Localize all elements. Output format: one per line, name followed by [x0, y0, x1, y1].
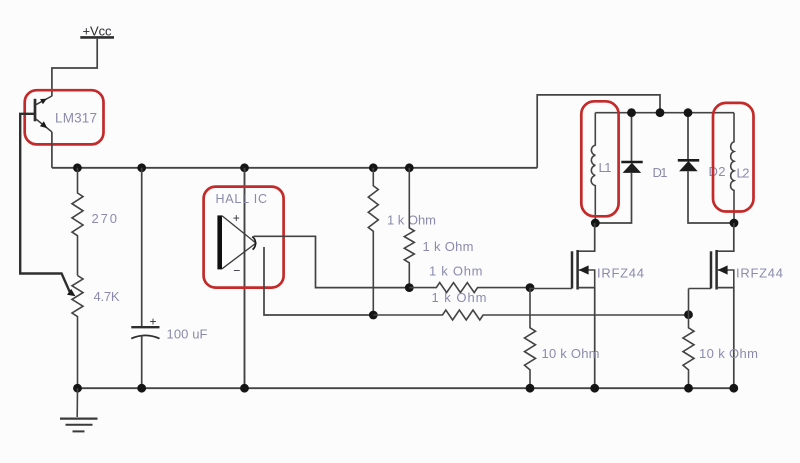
node dot bottom bus / hall supply	[240, 384, 249, 393]
op-amp U2 HALL IC	[217, 211, 256, 278]
label IRFZ44 (Q1)	[597, 266, 644, 281]
svg-text:IRFZ44: IRFZ44	[736, 266, 783, 281]
wire emitter of U1 down to top bus	[51, 132, 53, 168]
red highlight circle around L1	[581, 101, 618, 216]
svg-text:HALL IC: HALL IC	[216, 192, 268, 206]
node dot bottom bus / ground	[73, 384, 82, 393]
label IRFZ44 (Q2)	[736, 266, 783, 281]
node dot rail / feed	[656, 108, 665, 117]
label 1 k Ohm (R4)	[423, 239, 474, 254]
inductor L2	[731, 113, 734, 223]
label L1	[599, 160, 612, 175]
node dot L2 / D2 / drain2	[730, 219, 739, 228]
svg-text:IRFZ44: IRFZ44	[597, 266, 644, 281]
wire base of U1 to wiper (thick left wire)	[20, 114, 70, 293]
node dot feedback / R3 bottom	[369, 311, 378, 320]
red highlight circle around HALL IC	[204, 187, 284, 288]
potentiometer R2 4.7K	[72, 276, 83, 389]
svg-text:D2: D2	[709, 164, 726, 179]
resistor R4 1k (vertical right)	[404, 168, 414, 288]
label D1	[653, 165, 668, 180]
node dot bottom bus / source1	[590, 384, 599, 393]
inductor L1	[591, 113, 595, 223]
ground	[60, 388, 98, 431]
svg-text:L1: L1	[599, 160, 612, 175]
resistor R6 1k (horizontal lower)	[373, 310, 688, 320]
node dot top bus / R1kA	[369, 163, 378, 172]
label 1 k Ohm (R3)	[387, 213, 436, 228]
red highlight circle around L2	[713, 103, 754, 212]
wire top bus	[52, 167, 537, 169]
node dot top bus / hall supply	[240, 163, 249, 172]
svg-text:+: +	[233, 211, 240, 225]
svg-text:1 k Ohm: 1 k Ohm	[423, 239, 474, 254]
transistor U1 LM317 (pass element)	[35, 96, 52, 132]
node dot bottom bus / R8	[684, 384, 693, 393]
node dot R6 / gate2 riser	[684, 310, 693, 319]
diode D1	[595, 113, 642, 223]
node dot bottom bus / C1	[137, 384, 146, 393]
resistor R5 1k (horizontal upper)	[409, 283, 530, 293]
node dot rail / D1	[627, 108, 636, 117]
diode D2	[678, 113, 734, 223]
svg-text:100 uF: 100 uF	[167, 327, 208, 342]
wire hall supply vertical	[244, 168, 246, 388]
node dot top bus / R1kB	[405, 163, 414, 172]
node dot L1 / D1 / drain1	[591, 219, 600, 228]
red highlight circle around LM317	[25, 90, 104, 144]
svg-text:LM317: LM317	[55, 111, 97, 126]
svg-text:10 k Ohm: 10 k Ohm	[699, 346, 758, 361]
node dot top bus / R 270	[73, 163, 82, 172]
svg-text:1 k Ohm: 1 k Ohm	[432, 290, 487, 305]
wire flyback top rail	[595, 112, 734, 114]
label 10 k Ohm (R8)	[699, 346, 758, 361]
wire op-amp feedback drop	[264, 247, 373, 315]
wire bottom bus	[78, 387, 734, 389]
label 4.7K	[94, 289, 120, 304]
resistor R1 270	[72, 168, 83, 276]
transistor Q1 IRFZ44 (left MOSFET)	[530, 223, 595, 388]
power symbol +Vcc	[80, 24, 114, 39]
node dot bottom bus / R7	[526, 384, 535, 393]
label HALL IC	[216, 192, 268, 206]
wire Vcc stem to collector	[52, 39, 97, 96]
resistor R3 1k (vertical left)	[368, 168, 378, 315]
label D2	[709, 164, 726, 179]
svg-text:1 k Ohm: 1 k Ohm	[429, 264, 483, 279]
wiper arrow into 4.7K pot	[67, 289, 76, 296]
svg-text:270: 270	[92, 211, 118, 226]
node dot rail / D2	[684, 108, 693, 117]
node dot R4 / output line	[405, 283, 414, 292]
wire op-amp output to gate network	[254, 236, 410, 287]
svg-text:D1: D1	[653, 165, 668, 180]
node dot top bus / C1	[137, 163, 146, 172]
svg-text:+: +	[150, 315, 157, 329]
wire top bus riser to flyback rail	[537, 95, 660, 168]
label 100 uF	[167, 327, 208, 342]
label 1 k Ohm (R6)	[432, 290, 487, 305]
capacitor C1 100uF	[131, 168, 159, 388]
svg-text:1 k Ohm: 1 k Ohm	[387, 213, 436, 228]
node dot R5 / gate1	[526, 283, 535, 292]
resistor R8 10k (right)	[683, 289, 694, 389]
label LM317	[55, 111, 97, 126]
label 270	[92, 211, 118, 226]
transistor Q2 IRFZ44 (right MOSFET)	[689, 223, 734, 388]
label 1 k Ohm (R5)	[429, 264, 483, 279]
svg-text:−: −	[233, 264, 240, 278]
label L2	[737, 166, 750, 181]
resistor R7 10k (left)	[525, 288, 536, 389]
svg-text:4.7K: 4.7K	[94, 289, 120, 304]
label 10 k Ohm (R7)	[542, 346, 600, 361]
svg-text:L2: L2	[737, 166, 750, 181]
node dot bottom bus / source2	[729, 384, 738, 393]
svg-text:10 k Ohm: 10 k Ohm	[542, 346, 600, 361]
